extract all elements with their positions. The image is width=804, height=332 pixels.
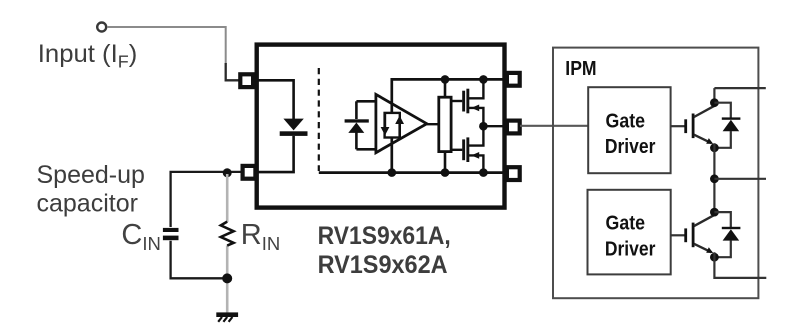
wire ground stem (gray) <box>226 278 229 313</box>
input terminal <box>97 23 106 32</box>
transistor Q2 plates <box>462 139 465 160</box>
feedback coupler box <box>385 113 400 138</box>
wire amp bottom to GND rail <box>390 137 393 172</box>
wire capacitor bottom to RIN bottom <box>171 241 228 278</box>
wire input to pin 1 (gray) <box>107 27 226 64</box>
wire VCC rail <box>392 79 508 113</box>
wire pin 6 to gate driver (gray) <box>520 125 589 127</box>
pin 2 (cathode) <box>243 166 256 179</box>
node phase junction <box>710 174 719 183</box>
transistor Q2 (lower MOSFET) gate wire <box>451 149 462 151</box>
wire gate driver 1 to IGBT gate <box>671 125 685 127</box>
node GND-driver junction <box>441 168 450 177</box>
wire photodiode bottom <box>356 148 377 151</box>
svg-text:capacitor: capacitor <box>37 190 138 218</box>
node T2 collector <box>710 208 719 217</box>
wire driver bottom to GND rail <box>444 152 447 173</box>
wire gate driver 2 to IGBT gate <box>671 234 685 236</box>
svg-text:Gate: Gate <box>606 110 646 132</box>
wire LED cathode to pin 2 <box>255 136 294 172</box>
node T2 emitter <box>710 253 719 262</box>
isolation boundary (dashed) <box>318 68 320 171</box>
wire phase output <box>714 178 766 180</box>
diode D3 branch (lower freewheel) <box>714 212 730 228</box>
transistor Q1 plates <box>462 91 465 112</box>
node RIN top junction <box>223 168 232 177</box>
svg-text:CIN: CIN <box>121 219 160 254</box>
svg-text:IPM: IPM <box>565 57 596 80</box>
node GND rail junction <box>479 168 488 177</box>
svg-text:RV1S9x62A: RV1S9x62A <box>318 251 448 279</box>
driver block (vertical rect) <box>439 97 451 151</box>
gate driver 1 box <box>588 87 670 173</box>
wire T2 emitter to N rail <box>714 252 766 278</box>
svg-text:RV1S9x61A,: RV1S9x61A, <box>318 222 451 250</box>
wire RIN stem lower (gray) <box>226 245 229 278</box>
wire driver top to VCC rail <box>444 79 447 97</box>
svg-text:Driver: Driver <box>605 238 656 260</box>
transistor Q1 source stub with arrow <box>469 108 483 126</box>
wire T1 collector to P rail <box>713 88 715 106</box>
svg-text:RIN: RIN <box>241 219 280 254</box>
IGBT T1 (upper) <box>684 119 687 133</box>
arrow up <box>398 123 400 137</box>
IGBT T2 (lower) <box>684 228 687 242</box>
pin 5 (GND) <box>507 167 520 180</box>
wire anode to LED <box>254 80 294 119</box>
photodiode PD1 <box>355 101 358 119</box>
wire T1 emitter to phase node <box>713 143 715 212</box>
svg-text:Driver: Driver <box>605 136 656 158</box>
node output junction <box>479 122 488 131</box>
wire RIN stem upper (gray) <box>226 174 229 222</box>
wire GND rail <box>319 171 508 174</box>
IPM enclosure <box>553 48 758 299</box>
ground <box>216 312 238 317</box>
transistor Q1 (upper MOSFET) gate wire <box>451 100 462 102</box>
optocoupler U1 package body RV1S9x61A/RV1S9x62A <box>257 45 505 208</box>
wire capacitor top to pin 2 <box>171 172 241 227</box>
transistor Q1 drain stub <box>469 79 483 98</box>
svg-text:Input (IF): Input (IF) <box>38 40 138 72</box>
op-amp A1 triangle <box>376 94 427 152</box>
node T1 emitter <box>710 143 719 152</box>
wire amp out to driver <box>427 123 439 125</box>
arrow down <box>384 113 386 128</box>
diode D2 branch (upper freewheel) <box>714 103 730 119</box>
node VCC-driver junction <box>441 75 450 84</box>
svg-text:Gate: Gate <box>606 213 646 235</box>
svg-text:Speed-up: Speed-up <box>37 161 145 189</box>
pin 8 (VCC) <box>507 73 520 86</box>
node amp GND junction <box>388 168 397 177</box>
LED D1 <box>283 119 303 131</box>
wire photodiode top <box>356 100 377 103</box>
node T1 collector <box>710 98 719 107</box>
transistor Q2 drain stub <box>469 126 483 145</box>
node RIN bottom junction <box>222 273 232 283</box>
wire output to pin 6 <box>483 125 507 127</box>
resistor RIN <box>221 222 234 246</box>
wire P rail <box>714 87 765 89</box>
gate driver 2 box <box>588 190 671 275</box>
pin 6 (VO) <box>507 121 520 134</box>
wire input drop to pin 1 <box>226 63 240 80</box>
node VCC rail junction <box>479 75 488 84</box>
capacitor CIN plates <box>163 228 179 232</box>
pin 1 (anode) <box>240 74 253 87</box>
transistor Q2 source stub with arrow <box>469 155 483 172</box>
